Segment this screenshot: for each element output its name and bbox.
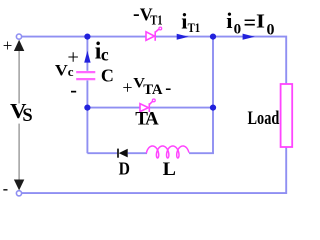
svg-text:c: c (101, 44, 109, 64)
svg-text:i: i (226, 8, 232, 33)
svg-text:T1: T1 (188, 20, 201, 35)
svg-text:TA: TA (135, 109, 159, 130)
svg-text:L: L (163, 159, 176, 179)
svg-text:=: = (244, 9, 257, 34)
svg-text:C: C (101, 66, 114, 86)
svg-text:T1: T1 (150, 14, 162, 29)
svg-text:-: - (165, 77, 171, 97)
svg-text:D: D (119, 158, 130, 178)
svg-text:-: - (3, 181, 8, 198)
svg-text:TA: TA (143, 82, 163, 98)
svg-text:-: - (133, 3, 140, 25)
svg-text:V: V (55, 62, 69, 80)
svg-text:i: i (181, 8, 187, 33)
svg-text:Load: Load (248, 108, 280, 129)
svg-text:I: I (256, 10, 265, 33)
svg-text:+: + (122, 78, 132, 98)
svg-text:c: c (68, 64, 74, 79)
svg-text:+: + (3, 36, 13, 55)
svg-text:0: 0 (234, 22, 242, 38)
svg-text:0: 0 (267, 21, 275, 38)
svg-text:-: - (70, 79, 77, 101)
svg-text:S: S (22, 106, 32, 126)
